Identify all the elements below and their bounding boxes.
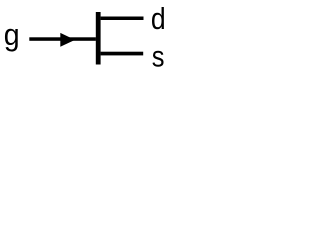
source wire [101, 52, 144, 56]
gate wire [29, 37, 96, 41]
svg-text:s: s [152, 40, 165, 73]
gate bar [96, 12, 101, 65]
arrowhead [60, 33, 75, 47]
transistor Q1 (simplified MOSFET symbol) [0, 0, 179, 75]
drain wire [101, 17, 144, 21]
svg-text:g: g [4, 17, 20, 52]
svg-text:d: d [151, 1, 166, 36]
